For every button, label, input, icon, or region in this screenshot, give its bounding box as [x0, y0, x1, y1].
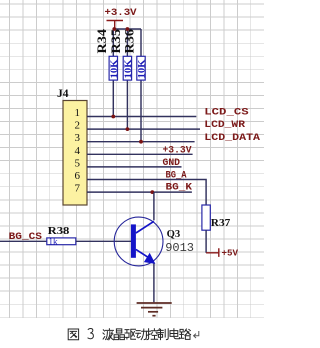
svg-text:BG_K: BG_K [166, 182, 193, 193]
svg-text:Q3: Q3 [167, 228, 181, 240]
svg-text:2: 2 [75, 120, 81, 132]
svg-text:+5V: +5V [222, 248, 239, 259]
svg-text:LCD_WR: LCD_WR [204, 120, 245, 131]
svg-text:10K: 10K [109, 60, 119, 79]
wire pin4 +3.3V [87, 153, 193, 155]
char 电 [170, 329, 179, 339]
char 图 [68, 329, 78, 340]
junction dot R34/pin1 [111, 115, 115, 119]
svg-text:6: 6 [75, 170, 81, 182]
svg-text:BG_A: BG_A [166, 170, 187, 181]
schematic sheet background grid [0, 0, 264, 318]
svg-text:3: 3 [75, 132, 81, 144]
resistor R35 lead wire [126, 29, 128, 129]
wire pin6 BG_A to R37 [87, 180, 206, 206]
svg-text:LCD_CS: LCD_CS [204, 108, 248, 119]
wire Q3 emitter down to ground [153, 264, 155, 303]
wire BG_CS to R38 [0, 240, 47, 242]
wire rail top [113, 28, 141, 30]
char 液 [103, 329, 114, 340]
resistor R34 lead wire [112, 29, 114, 117]
wire R37 to +5V [205, 230, 207, 253]
char 制 [158, 329, 169, 340]
char 控 [147, 329, 158, 340]
svg-text:R37: R37 [211, 217, 231, 229]
junction dot R35/pin2 [126, 127, 130, 131]
svg-text:1k: 1k [49, 237, 59, 247]
return mark [194, 331, 199, 338]
svg-text:7: 7 [75, 183, 81, 195]
power +5V symbol [206, 248, 219, 257]
svg-text:1: 1 [75, 107, 81, 119]
char 3 [88, 328, 93, 338]
char 驱 [125, 329, 136, 339]
power +3.3V bar symbol [107, 21, 124, 30]
char 路 [180, 329, 191, 339]
svg-text:4: 4 [75, 145, 81, 157]
svg-text:10K: 10K [123, 60, 133, 79]
svg-text:R38: R38 [48, 225, 70, 237]
transistor Q3 [114, 217, 194, 266]
svg-text:R36: R36 [122, 28, 137, 53]
wire pin5 GND [87, 166, 182, 168]
resistor R36 lead wire [140, 29, 142, 142]
svg-text:GND: GND [163, 158, 181, 169]
junction dot Q3 collector/pin7 [150, 190, 154, 194]
junction dot R36/pin3 [139, 140, 143, 144]
svg-text:J4: J4 [57, 88, 69, 100]
wire pin3 LCD_DATA [87, 141, 195, 143]
wire pin7 BG_K [87, 191, 192, 193]
wire Q3 collector up to BG_K [153, 192, 155, 220]
wire R38 to Q3 base [76, 240, 131, 242]
resistor R38 [47, 225, 76, 247]
resistor R35 [108, 28, 133, 80]
svg-text:10K: 10K [137, 60, 147, 79]
char 晶 [114, 329, 124, 340]
svg-text:9013: 9013 [165, 241, 194, 255]
wire pin1 LCD_CS [87, 116, 196, 118]
svg-text:R34: R34 [94, 28, 109, 53]
resistor R34 [94, 28, 119, 80]
junction dot rail 2 [126, 27, 130, 31]
svg-text:+3.3V: +3.3V [105, 8, 137, 19]
resistor R37 [202, 205, 231, 230]
junction dot rail 1 [112, 27, 116, 31]
resistor R36 [122, 28, 147, 80]
connector J4 body [63, 101, 87, 206]
ground [137, 303, 172, 316]
caption 图 3 液晶驱动控制电路 [68, 328, 190, 339]
svg-text:+3.3V: +3.3V [163, 146, 192, 157]
char 动 [136, 329, 147, 340]
svg-text:LCD_DATA: LCD_DATA [204, 133, 260, 144]
wire pin2 LCD_WR [87, 128, 200, 130]
svg-text:5: 5 [75, 157, 81, 169]
